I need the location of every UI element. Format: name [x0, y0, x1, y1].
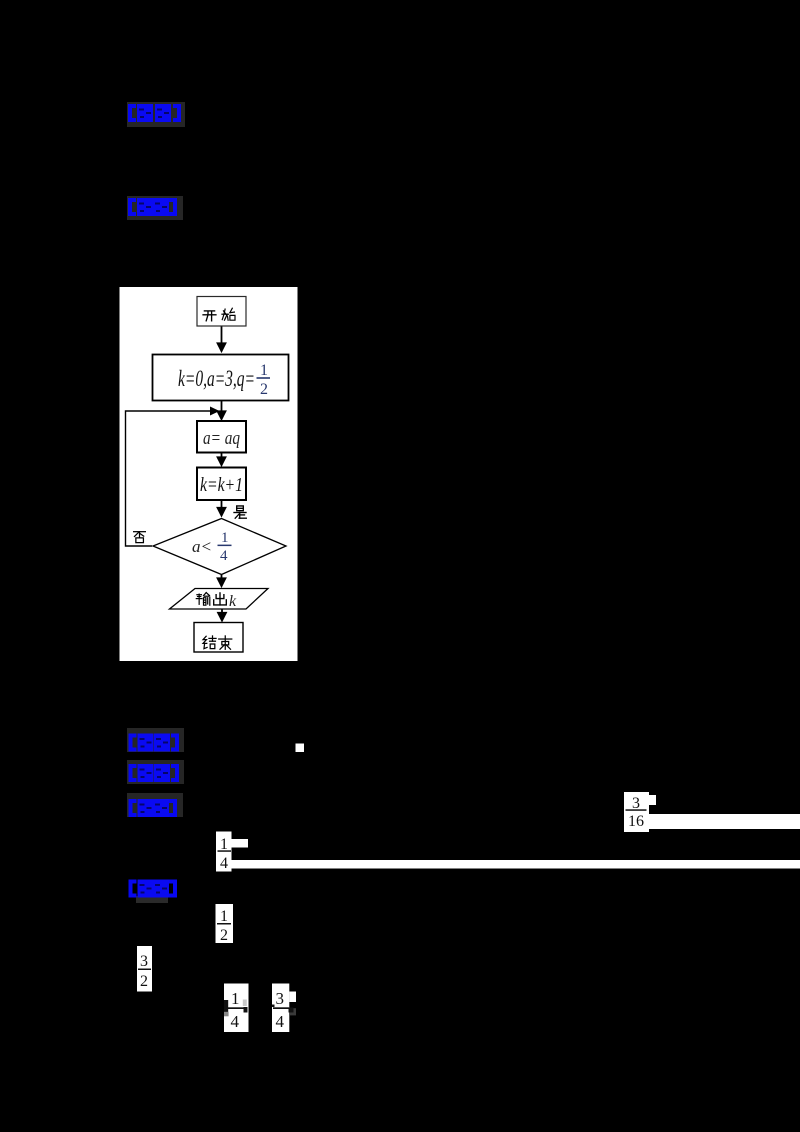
- side marks: [272, 1005, 275, 1008]
- label L1 blue 【答案】: [128, 104, 181, 122]
- white band right of 3/16: [649, 814, 800, 829]
- svg-text:a<: a<: [192, 537, 212, 556]
- svg-text:1: 1: [221, 530, 229, 546]
- label L5 blue 【分析】: [129, 799, 178, 817]
- svg-text:4: 4: [220, 855, 228, 872]
- label L4 blue 【专题】: [129, 764, 180, 782]
- arrow k=k+1 -> diamond: [221, 500, 223, 516]
- formula image 1/4 (first): [216, 832, 248, 873]
- label L2 blue 【解析】: [128, 198, 177, 216]
- label L3 blue 【考点】: [129, 734, 180, 752]
- label 否: [134, 532, 146, 543]
- svg-text:4: 4: [231, 1012, 240, 1031]
- svg-text:k=0,a=3,q=: k=0,a=3,q=: [178, 366, 255, 391]
- loop line (no branch): [126, 411, 217, 546]
- output parallelogram 输出k: [170, 589, 269, 611]
- label L1 highlight: [127, 102, 185, 127]
- svg-text:1: 1: [231, 989, 240, 1008]
- svg-text:4: 4: [220, 548, 228, 564]
- end box 结束: [194, 623, 243, 653]
- svg-text:2: 2: [220, 927, 228, 944]
- init box k=0,a=3,q=1/2: [153, 355, 289, 401]
- label 是: [234, 506, 246, 518]
- long white band to right edge: [232, 860, 800, 869]
- svg-text:1: 1: [220, 908, 228, 925]
- decision diamond a<1/4: [153, 519, 286, 575]
- arrow init->a=aq: [221, 401, 223, 419]
- loop arrowhead: [210, 407, 220, 416]
- svg-text:k=k+1: k=k+1: [200, 474, 243, 496]
- side marks: [224, 1000, 228, 1012]
- svg-text:4: 4: [276, 1012, 285, 1031]
- label L5 highlight: [127, 793, 183, 817]
- svg-text:1: 1: [260, 362, 268, 379]
- svg-text:3: 3: [140, 953, 148, 970]
- svg-text:a= aq: a= aq: [203, 428, 240, 449]
- arrow diamond->output: [221, 575, 223, 586]
- svg-text:2: 2: [140, 973, 148, 990]
- formula image 3/2: [137, 946, 152, 992]
- svg-text:k: k: [229, 593, 237, 610]
- formula image 1/2: [216, 904, 234, 944]
- formula image 3/4: [272, 984, 296, 1033]
- formula image 1/4 (second): [224, 984, 249, 1033]
- white dot after 考点 line: [296, 744, 305, 753]
- fraction 1/2 (blue) in init box: [257, 362, 271, 398]
- svg-text:2: 2: [260, 381, 268, 398]
- label L2 highlight: [127, 196, 183, 220]
- start box 开始: [197, 297, 246, 327]
- box k=k+1: [197, 468, 246, 501]
- fraction 1/4 (blue) in diamond: [218, 530, 232, 564]
- formula image 3/16: [624, 792, 656, 832]
- arrow a=aq->k=k+1: [221, 453, 223, 466]
- flowchart white background: [120, 287, 298, 661]
- label L4 highlight: [127, 760, 184, 784]
- svg-text:3: 3: [276, 989, 285, 1008]
- label L6 blue 【解答】: [129, 880, 178, 898]
- arrow start->init: [221, 327, 223, 352]
- label L6 highlight: [136, 896, 168, 903]
- svg-text:16: 16: [628, 813, 644, 830]
- box a=aq: [197, 421, 246, 453]
- arrow output->end: [221, 610, 223, 621]
- label L3 highlight: [127, 728, 184, 752]
